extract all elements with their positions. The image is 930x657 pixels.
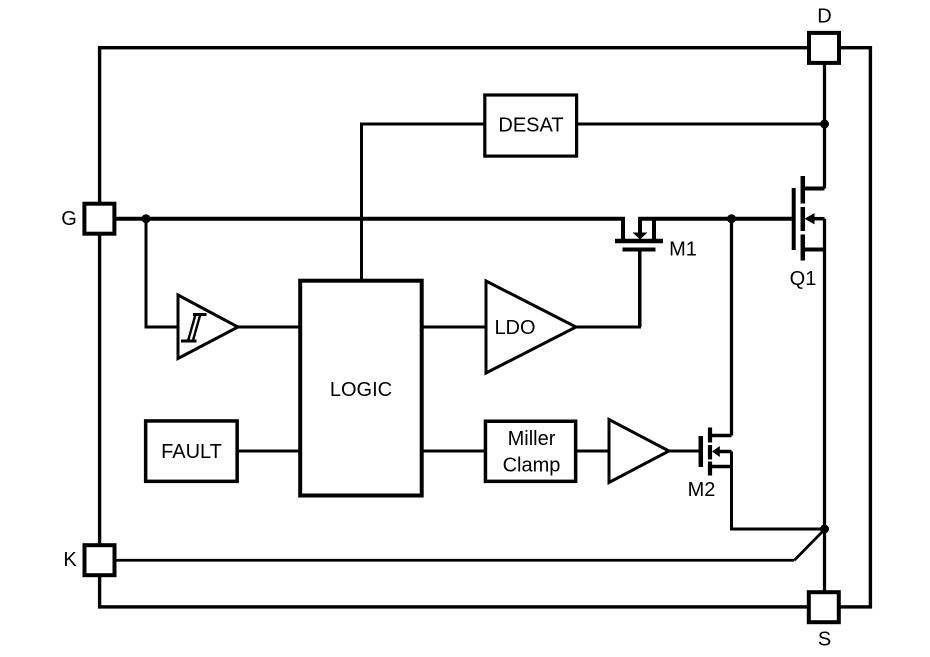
terminal S [809, 592, 839, 622]
svg-text:M1: M1 [669, 239, 697, 261]
terminal D [809, 33, 839, 63]
wire: LOGIC top to DESAT left [362, 124, 487, 282]
wire: M2 drain up to G rail [730, 219, 733, 436]
svg-text:Q1: Q1 [790, 268, 817, 290]
buffer: Miller clamp driver [609, 420, 669, 483]
svg-text:Miller: Miller [508, 428, 556, 450]
svg-text:G: G [61, 208, 77, 230]
IC boundary box [100, 48, 871, 607]
wire: K terminal run [114, 559, 794, 562]
svg-text:LOGIC: LOGIC [330, 379, 392, 401]
wire: LDO output up to M1 gate [576, 251, 640, 329]
transistor M1 [615, 217, 663, 327]
wire: G rail left segment (G terminal to M1) [114, 217, 625, 221]
svg-text:D: D [817, 6, 831, 28]
wire: M2 source down and across to source junction [732, 452, 825, 530]
svg-text:DESAT: DESAT [498, 115, 563, 137]
node: junction on G rail at Schmitt input [142, 214, 151, 223]
wire: G rail right segment (M1 to Q1 gate) [639, 217, 792, 221]
svg-text:LDO: LDO [494, 317, 535, 339]
block DESAT [485, 95, 577, 156]
wire: buffer output to M2 gate [667, 450, 700, 453]
node: junction on G rail above M2 drain [727, 214, 736, 223]
wire: Schmitt trigger input drop [146, 219, 178, 327]
terminal K [85, 545, 115, 575]
amplifier LDO [486, 281, 576, 373]
buffer: Schmitt trigger input stage [178, 295, 238, 359]
block LOGIC [300, 281, 422, 496]
svg-text:M2: M2 [688, 479, 716, 501]
svg-text:K: K [63, 549, 77, 571]
wire: DESAT output across to Q1 drain line [576, 123, 825, 126]
transistor M2 [701, 428, 732, 476]
block FAULT [146, 421, 238, 481]
wire: Kelvin sense diagonal [794, 530, 824, 561]
wire: FAULT to LOGIC [236, 450, 302, 453]
wire: LOGIC to Miller Clamp [420, 450, 487, 453]
svg-text:Clamp: Clamp [503, 455, 561, 477]
svg-text:S: S [818, 629, 831, 651]
terminal G [84, 204, 114, 234]
wire: D terminal down to Q1 drain [823, 63, 826, 189]
wire: Miller Clamp to buffer [575, 450, 611, 453]
wire: Schmitt output to LOGIC [238, 326, 302, 329]
node: source junction near S [820, 525, 829, 534]
wire: LOGIC to LDO input [420, 326, 487, 329]
node: junction of DESAT wire and drain line [820, 120, 829, 129]
wire: Q1 source/bulk down to S terminal [823, 219, 826, 593]
transistor Q1 [794, 176, 825, 261]
block Miller Clamp [485, 421, 575, 481]
svg-text:FAULT: FAULT [161, 441, 222, 463]
